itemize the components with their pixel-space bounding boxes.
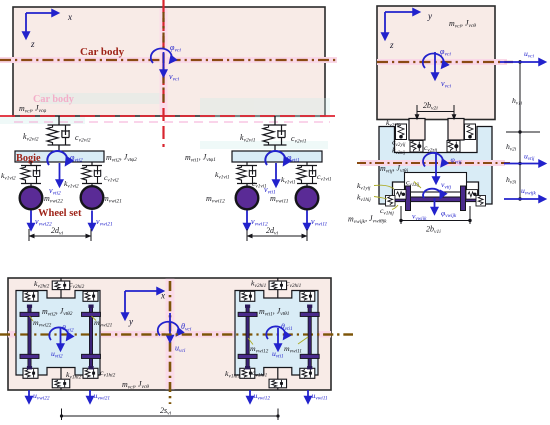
u_vti1 arrow <box>272 328 284 360</box>
svg-text:z: z <box>389 40 394 50</box>
lateral secondary spring box (right) <box>465 124 476 140</box>
coordinate axes x-z <box>26 12 73 49</box>
u_vtij lateral arrow <box>504 152 545 164</box>
wheelset m_vwi21 (top view) <box>82 305 101 370</box>
bogie 2 bottom spring pair k_v1h + c_v1h <box>60 368 62 391</box>
bogie 1 corner spring box <box>240 291 255 301</box>
vertical velocity v_vci <box>164 52 180 83</box>
wheelset axle (end view) <box>391 197 477 202</box>
wheelset roll arc <box>423 189 441 198</box>
car body bolster pedestals <box>409 119 425 141</box>
vertical secondary pair (right) <box>447 141 460 153</box>
centerline over bogies <box>0 333 353 335</box>
svg-text:Wheel set: Wheel set <box>38 208 82 219</box>
bogie 1 corner spring box <box>300 291 315 301</box>
wheel velocity v_vwi22 <box>31 211 52 230</box>
wheel m_vwi12 <box>236 187 259 210</box>
car body (end view) <box>377 6 495 120</box>
wheelset m_vwi11 (top view) <box>300 305 319 370</box>
wheelset m_vwi12 (top view) <box>238 305 257 370</box>
u_vwi22 arrow <box>29 390 50 403</box>
coordinate axes y-z <box>385 11 433 50</box>
u_vwi21 arrow <box>90 390 110 403</box>
left journal spring-damper cluster <box>395 190 407 200</box>
u_vwijk lateral arrow <box>504 186 545 199</box>
bogie 1 frame (side view) <box>232 151 322 162</box>
bogie 2 yaw theta_vti2 <box>49 323 74 340</box>
top view horizontal centerline <box>0 331 353 338</box>
bogie centerline <box>357 160 513 166</box>
bogie vertical velocity v_vtij <box>436 152 452 191</box>
wheel m_vwi21 <box>81 186 104 209</box>
bogie 2 frame (top view) <box>16 291 100 376</box>
svg-text:Car body: Car body <box>33 94 74 105</box>
vertical secondary pair (left) k_v2zij c_v2zij <box>410 141 423 153</box>
v_vci (end view) <box>435 52 451 90</box>
vertical centerline of car body <box>162 0 164 147</box>
u_vci arrow (top view) <box>170 313 186 354</box>
bogie 1 frame (top view) <box>235 291 318 376</box>
u_vti2 arrow <box>51 328 63 360</box>
right journal spring-damper cluster <box>466 190 478 200</box>
bogie 1 vertical velocity <box>264 163 276 196</box>
svg-text:Car body: Car body <box>80 46 125 58</box>
wheelset m_vwi22 (top view) <box>20 305 39 370</box>
vertical centerline pink band <box>160 8 168 115</box>
bogie 1 yaw theta_vti1 <box>266 322 293 340</box>
bogie roll arrow phi_vtij <box>423 153 462 167</box>
left wheel plate <box>406 186 411 211</box>
jpeg artifact tints <box>0 93 330 149</box>
car body (top view) <box>8 278 331 390</box>
u_vwi11 arrow <box>308 390 328 403</box>
wheel velocity v_vwi12 <box>247 211 268 230</box>
lateral secondary spring box k_v2yij (left) <box>396 124 407 140</box>
primary suspension spring k_v1vi1 + damper c_v1vi1 <box>237 162 257 187</box>
inner box of bogie frame <box>405 173 467 193</box>
wheel m_vwi22 <box>20 187 43 210</box>
u_vci lateral arrow <box>500 49 545 62</box>
dimension 2d_vi <box>29 229 91 241</box>
dimension 2b_v1i <box>401 206 470 224</box>
dimension 2s_vi <box>62 409 279 421</box>
secondary suspension spring k_v2vi2 + damper c_v2vi2 <box>47 116 71 151</box>
wheel velocity v_vwi21 <box>92 211 113 230</box>
dimension 2d_vi <box>247 229 307 241</box>
leader lines <box>374 182 421 210</box>
pitch angle phi_vci <box>151 43 182 63</box>
roll angle phi_vci <box>423 47 452 68</box>
magenta artifact dashed line <box>14 121 330 123</box>
end view centerline <box>377 59 513 65</box>
car body (side view) <box>13 7 325 116</box>
secondary suspension spring k_v2vi1 + damper c_v2vi1 <box>263 116 287 151</box>
top view vertical centerline <box>166 279 175 390</box>
bogie 2 corner spring box <box>83 291 98 301</box>
bogie 1 pitch arrow <box>265 151 285 165</box>
bogie 1 top spring pair k_v2h + c_v2h <box>277 278 279 298</box>
primary suspension spring k_v1vi2 + damper c_v1vi2 <box>21 162 41 187</box>
bogie 2 pitch arrow <box>47 151 67 165</box>
bogie 1 bottom spring pair k_v1h + c_v1h <box>277 368 279 391</box>
u_vwi12 arrow <box>250 390 270 403</box>
height reference column <box>506 60 540 199</box>
dimension 2b_v2i <box>417 105 454 119</box>
yaw angle theta_vci <box>158 322 192 336</box>
bogie frame (end view) <box>379 127 492 205</box>
svg-text:Bogie: Bogie <box>16 153 41 164</box>
wheel m_vwi11 <box>296 187 319 210</box>
primary suspension spring k_v1vi2 + damper c_v1vi2 <box>82 162 102 187</box>
svg-text:z: z <box>30 39 35 49</box>
coordinate axes x-y (top view) <box>125 291 166 327</box>
bogie 2 top spring pair k_v2h + c_v2h <box>60 278 62 298</box>
bogie 2 corner spring box <box>23 291 38 301</box>
bogie 2 frame (side view) <box>15 151 104 162</box>
wheelset velocity v_vwijk <box>412 198 435 222</box>
car body horizontal centerline <box>0 57 337 63</box>
primary suspension spring k_v1vi1 + damper c_v1vi1 <box>297 162 317 187</box>
wheel velocity v_vwi11 <box>307 211 328 230</box>
bogie 2 vertical velocity <box>49 163 61 197</box>
red dashed line at car body bottom <box>0 115 338 117</box>
right wheel plate <box>461 186 466 211</box>
